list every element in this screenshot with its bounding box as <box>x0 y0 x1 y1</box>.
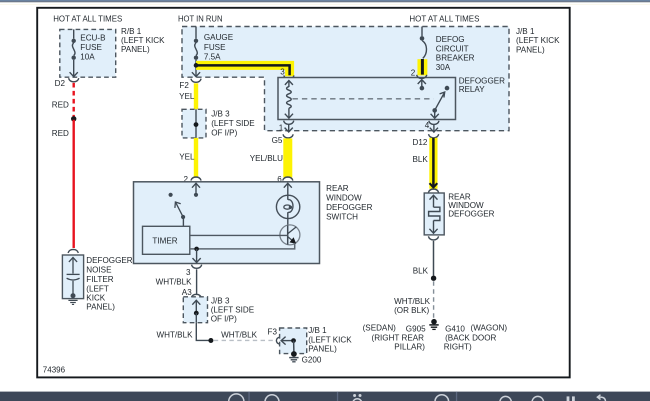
junction dot on red wire <box>71 116 76 121</box>
bottom toolbar <box>0 392 650 401</box>
toolbar icon undo arrow <box>598 397 606 401</box>
svg-text:BLK: BLK <box>413 155 429 164</box>
svg-text:PILLAR): PILLAR) <box>394 343 425 352</box>
toolbar icon circle 4 <box>500 396 512 401</box>
junction dot BLK wire <box>431 276 436 281</box>
svg-text:WHT/BLK: WHT/BLK <box>394 297 431 306</box>
relay pin 2 arrow <box>418 80 426 86</box>
relay fixed contact dot (pin2) <box>420 86 425 91</box>
svg-text:HOT AT ALL TIMES: HOT AT ALL TIMES <box>409 14 480 23</box>
svg-text:(LEFT SIDE: (LEFT SIDE <box>211 305 255 314</box>
connector cup switch pin 6 <box>283 177 293 181</box>
junction block J/B 3 dashed box (lower) <box>183 297 207 323</box>
switch pin 3 arrow <box>193 249 201 263</box>
yellow highlight relay-to-defogger <box>429 138 437 189</box>
svg-text:REAR: REAR <box>326 184 349 193</box>
wire YEL/BLU yellow highlighted <box>283 138 292 177</box>
svg-text:WHT/BLK: WHT/BLK <box>157 331 194 340</box>
svg-text:(OR BLK): (OR BLK) <box>394 306 429 315</box>
svg-text:OF I/P): OF I/P) <box>211 128 237 137</box>
svg-text:F3: F3 <box>268 327 278 336</box>
top window strip <box>0 0 650 3</box>
svg-text:ECU-B: ECU-B <box>80 34 105 43</box>
svg-text:(RIGHT REAR: (RIGHT REAR <box>372 333 425 342</box>
svg-text:(LEFT KICK: (LEFT KICK <box>308 336 352 345</box>
diagram frame border <box>37 8 570 378</box>
wire WHT/BLK pin3 to A3 <box>196 269 198 294</box>
svg-text:NOISE: NOISE <box>86 266 112 275</box>
svg-text:A3: A3 <box>182 288 192 297</box>
svg-text:(LEFT KICK: (LEFT KICK <box>121 36 165 45</box>
svg-text:(LEFT KICK: (LEFT KICK <box>516 36 560 45</box>
connector cup relay pin 3 <box>284 75 294 79</box>
junction dot in J/B 3 <box>194 122 199 127</box>
capacitor symbol inside noise filter <box>67 257 80 298</box>
svg-text:YEL/BLU: YEL/BLU <box>250 154 283 163</box>
toolbar icon pause bars <box>567 396 570 401</box>
svg-text:CIRCUIT: CIRCUIT <box>436 44 469 53</box>
indicator lamp <box>276 195 299 218</box>
wire YEL upper segment <box>194 83 198 109</box>
svg-text:FILTER: FILTER <box>86 275 113 284</box>
svg-text:74396: 74396 <box>43 365 66 374</box>
connector cup defogger top <box>428 189 438 193</box>
svg-text:D12: D12 <box>413 138 428 147</box>
relay block R/B 1 dashed box <box>60 29 116 77</box>
svg-text:PANEL): PANEL) <box>308 345 337 354</box>
toolbar icon circle 3 <box>435 395 449 401</box>
svg-text:1: 1 <box>279 123 284 132</box>
wire arm to timer <box>182 217 184 226</box>
toolbar icon circle 5 <box>532 396 544 401</box>
svg-text:DEFOG: DEFOG <box>436 35 465 44</box>
svg-text:RIGHT): RIGHT) <box>444 343 472 352</box>
svg-text:SWITCH: SWITCH <box>326 213 358 222</box>
connector cup A3 <box>191 294 201 298</box>
wire BLK below defogger <box>433 241 435 276</box>
svg-text:J/B 1: J/B 1 <box>308 326 327 335</box>
transistor circle <box>280 225 300 245</box>
svg-text:7.5A: 7.5A <box>204 53 221 62</box>
connector F2 cup <box>191 79 201 83</box>
svg-text:G200: G200 <box>302 356 322 365</box>
svg-text:RED: RED <box>52 129 69 138</box>
svg-text:(LEFT SIDE: (LEFT SIDE <box>211 119 255 128</box>
svg-text:HOT AT ALL TIMES: HOT AT ALL TIMES <box>53 14 123 23</box>
toolbar separator 3 <box>456 392 457 401</box>
emitter return wire to timer <box>190 243 295 249</box>
svg-text:DEFOGGER: DEFOGGER <box>86 256 132 265</box>
rear window defogger switch box <box>134 182 320 264</box>
svg-text:DEFOGGER: DEFOGGER <box>448 209 494 218</box>
wire WHT/BLK dashed to F3 <box>214 339 273 341</box>
transistor base wire from timer <box>190 234 288 236</box>
circuit breaker DEFOG 30A symbol <box>420 27 427 59</box>
connector cup relay pin 4 <box>429 121 439 125</box>
yellow highlight on fuse-to-relay wire <box>196 65 290 76</box>
svg-text:HOT IN RUN: HOT IN RUN <box>178 14 223 23</box>
svg-text:PANEL): PANEL) <box>516 46 545 55</box>
junction dot in ground J/B 1 <box>291 338 296 343</box>
arrow below relay pin 1 <box>285 124 293 132</box>
defogger relay solid box <box>278 78 456 120</box>
svg-text:J/B 3: J/B 3 <box>211 110 230 119</box>
svg-text:FUSE: FUSE <box>204 43 226 52</box>
wire black core breaker-to-relay <box>421 59 424 75</box>
relay coil bottom arrow <box>285 108 293 118</box>
defogger element symbol <box>429 195 440 233</box>
switch pin 2 contact dot <box>194 193 198 197</box>
svg-text:(LEFT: (LEFT <box>86 284 109 293</box>
junction dot in lower J/B 3 <box>194 311 199 316</box>
wire RED solid segment <box>72 120 74 248</box>
relay mechanical dashed link <box>293 98 434 100</box>
junction dot at gauge fuse <box>194 63 199 68</box>
junction block J/B 1 large dashed box (notched) <box>182 27 509 131</box>
svg-text:BREAKER: BREAKER <box>436 54 475 63</box>
switch arm open contact dot <box>169 193 173 197</box>
fuse ECU-B 10A symbol <box>70 29 78 76</box>
connector D12 cup <box>429 134 439 138</box>
connector cup relay pin 2 <box>417 75 427 79</box>
svg-text:DEFOGGER: DEFOGGER <box>326 203 372 212</box>
svg-text:KICK: KICK <box>86 294 105 303</box>
svg-text:OF I/P): OF I/P) <box>211 315 237 324</box>
ground G905/G410 <box>429 319 438 329</box>
svg-text:(WAGON): (WAGON) <box>471 323 508 332</box>
svg-text:30A: 30A <box>436 63 451 72</box>
junction dot timer output <box>194 247 199 252</box>
relay coil <box>287 87 292 109</box>
svg-text:J/B 1: J/B 1 <box>516 27 535 36</box>
switch arm pivot dot <box>181 215 185 219</box>
junction block J/B 1 dashed box (ground) <box>280 328 307 354</box>
rear window defogger box <box>424 193 444 235</box>
svg-text:DEFOGGER: DEFOGGER <box>459 76 505 85</box>
svg-text:R/B 1: R/B 1 <box>121 27 142 36</box>
svg-text:G5: G5 <box>272 136 283 145</box>
relay pin 4 arrow <box>431 110 439 118</box>
timer box <box>143 226 190 254</box>
faint cream line under strip <box>0 4 650 5</box>
relay pin 3 arrow <box>285 80 293 87</box>
svg-text:G410: G410 <box>445 324 465 333</box>
toolbar icon circle 2 <box>265 395 279 401</box>
switch arm with arrow <box>175 202 183 217</box>
svg-text:2: 2 <box>411 68 416 77</box>
ground symbol under noise filter <box>68 300 77 304</box>
svg-text:BLK: BLK <box>413 266 429 275</box>
connector F3 cup <box>276 337 280 344</box>
toolbar separator 1 <box>248 392 249 401</box>
wire thick black from gauge fuse to relay pin 3 <box>196 65 290 75</box>
connector cup relay pin 1 <box>284 121 294 125</box>
svg-text:YEL: YEL <box>179 92 195 101</box>
ground G200 dot <box>291 351 297 357</box>
svg-text:(BACK DOOR: (BACK DOOR <box>445 333 496 342</box>
wire down to G200 <box>293 341 295 353</box>
svg-text:PANEL): PANEL) <box>86 303 115 312</box>
connector cup switch pin 2 <box>191 177 201 181</box>
toolbar icon umlaut dots <box>353 394 356 397</box>
svg-text:G905: G905 <box>406 324 426 333</box>
wire lamp to transistor <box>287 212 289 225</box>
svg-text:F2: F2 <box>179 81 189 90</box>
svg-text:4: 4 <box>425 121 430 130</box>
wire WHT/BLK (OR BLK) dashed <box>433 281 435 318</box>
transistor collector line <box>288 227 297 234</box>
wire YEL lower segment <box>194 138 198 177</box>
arrow below relay pin 4 <box>430 124 438 132</box>
svg-text:D2: D2 <box>55 79 66 88</box>
wire through lower J/B 3 <box>195 313 197 323</box>
relay arm pivot dot <box>432 108 437 113</box>
svg-text:RELAY: RELAY <box>459 85 486 94</box>
svg-text:RED: RED <box>52 100 69 109</box>
fuse GAUGE 7.5A symbol <box>192 27 200 77</box>
toolbar icon circle 1 <box>229 394 244 401</box>
transistor base bar <box>287 225 289 244</box>
switch pin 6 arrow <box>284 183 292 200</box>
wire through J/B 3 <box>195 109 197 138</box>
svg-text:WINDOW: WINDOW <box>326 194 362 203</box>
ground G200 symbol <box>289 358 298 362</box>
connector cup at noise filter top <box>68 249 78 253</box>
svg-text:FUSE: FUSE <box>80 43 102 52</box>
connector G5 cup <box>283 134 293 138</box>
svg-text:3: 3 <box>186 268 191 277</box>
F3 entry arrow pointing left <box>281 337 291 345</box>
svg-text:WHT/BLK: WHT/BLK <box>221 331 258 340</box>
toolbar separator 2 <box>337 392 338 401</box>
defogger noise filter box <box>62 255 83 299</box>
wire BLK black core with arrow <box>430 138 438 188</box>
junction block J/B 3 dashed box (upper) <box>182 109 206 138</box>
J/B 3 lower entry arrow <box>192 300 200 311</box>
svg-text:TIMER: TIMER <box>152 236 177 245</box>
connector D2 female cup <box>69 78 79 82</box>
svg-text:GAUGE: GAUGE <box>204 33 234 42</box>
svg-text:WHT/BLK: WHT/BLK <box>156 277 193 286</box>
relay switch arm <box>435 92 445 110</box>
connector cup under defogger <box>428 236 438 240</box>
svg-text:YEL: YEL <box>179 152 195 161</box>
svg-text:(SEDAN): (SEDAN) <box>363 323 397 332</box>
transistor emitter with arrow <box>288 237 293 241</box>
switch pin 2 arrow <box>192 183 200 193</box>
wire WHT/BLK elbow to ground run <box>196 323 208 341</box>
wire RED dashed segment <box>72 83 74 117</box>
yellow highlight breaker-to-relay <box>417 59 427 75</box>
junction dot on ground run <box>208 338 213 343</box>
svg-text:J/B 3: J/B 3 <box>211 296 230 305</box>
svg-text:PANEL): PANEL) <box>121 45 150 54</box>
connector cup switch pin 3 <box>192 265 202 269</box>
svg-text:10A: 10A <box>80 53 95 62</box>
relay fixed contact dot (right) <box>445 86 450 91</box>
